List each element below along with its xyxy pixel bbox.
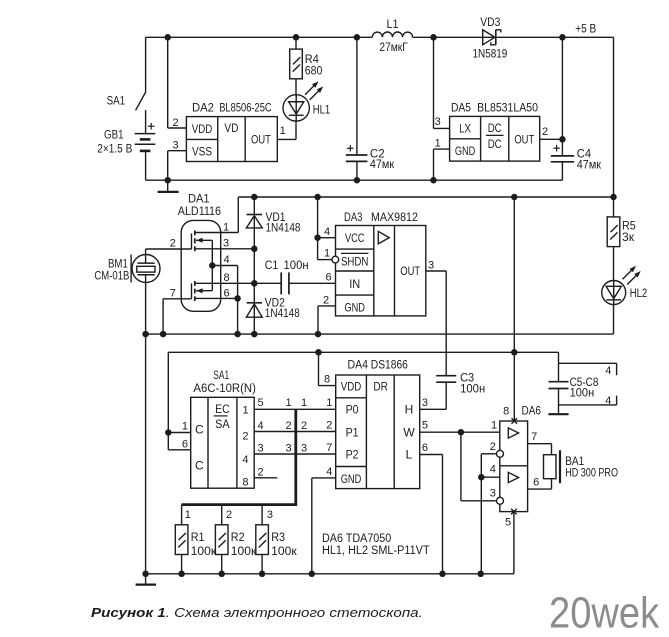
svg-text:2: 2 xyxy=(301,420,307,432)
svg-text:SA: SA xyxy=(215,417,230,431)
svg-text:1: 1 xyxy=(182,421,188,433)
pin 2 label SA1 xyxy=(258,466,264,478)
pin 3 label DA2 xyxy=(173,139,179,151)
svg-text:5: 5 xyxy=(258,397,264,409)
svg-text:100к: 100к xyxy=(271,546,298,558)
pin 6 label DA1 xyxy=(223,287,229,299)
svg-text:LX: LX xyxy=(459,122,471,136)
junction bottom rail / DA4 GND xyxy=(309,571,316,578)
ground symbol upper xyxy=(158,180,179,192)
pin 1 inversion circle DA3 xyxy=(332,256,339,263)
svg-text:W: W xyxy=(403,425,415,439)
junction bottom rail / R2 xyxy=(218,571,225,578)
wire +5V sub rail xyxy=(238,196,613,198)
svg-text:EC: EC xyxy=(215,402,230,416)
svg-text:GND: GND xyxy=(455,144,476,158)
wire DA3 GND branch xyxy=(318,306,336,334)
svg-text:2: 2 xyxy=(226,509,232,521)
pin 5 cross DA6 xyxy=(511,509,517,515)
wire DA6 pin6 to BA1 xyxy=(528,479,552,489)
svg-text:OUT: OUT xyxy=(251,133,271,147)
capacitor C4 xyxy=(551,37,602,180)
wire DA5 OUT to C4 node xyxy=(540,138,563,140)
junction C4 node xyxy=(559,136,566,143)
capacitor C3 xyxy=(420,373,486,410)
junction sub rail / DA3 VCC xyxy=(314,194,321,201)
junction pin3 / diode chain xyxy=(251,246,257,253)
pin 1 label DA6 xyxy=(491,420,497,432)
svg-text:4: 4 xyxy=(258,420,264,432)
pin 7 label DA6 xyxy=(531,431,537,443)
wire bus drop 2 xyxy=(221,505,223,525)
junction bottom rail / DA4 L xyxy=(439,571,446,578)
svg-text:HL1, HL2 SML-P11VT: HL1, HL2 SML-P11VT xyxy=(322,545,430,557)
svg-text:2: 2 xyxy=(173,117,179,129)
resistor R1 xyxy=(175,525,217,574)
pin 5 label DA4 xyxy=(422,419,428,431)
svg-text:100н: 100н xyxy=(570,387,595,399)
svg-text:47мк: 47мк xyxy=(370,159,395,171)
svg-text:1: 1 xyxy=(435,137,441,149)
svg-text:5: 5 xyxy=(505,516,511,528)
svg-text:C: C xyxy=(195,458,204,472)
svg-text:7: 7 xyxy=(170,287,176,299)
pin 4 label DA4 xyxy=(326,466,332,478)
node drop2 label xyxy=(226,509,232,521)
wire DA5 LX branch xyxy=(434,37,450,128)
wire DA5 GND branch xyxy=(434,149,450,180)
svg-text:3: 3 xyxy=(267,509,273,521)
junction top rail / C2 branch xyxy=(354,34,361,41)
svg-text:VCC: VCC xyxy=(345,231,365,245)
diode VD1 xyxy=(246,212,300,234)
wire BM1 bottom to ground rail xyxy=(145,275,147,334)
svg-text:L1: L1 xyxy=(387,19,399,31)
svg-text:1N4148: 1N4148 xyxy=(266,222,301,234)
svg-text:L: L xyxy=(406,447,413,461)
node HL type label xyxy=(322,545,430,557)
wire DA3 VCC-SHDN branch xyxy=(318,197,336,260)
pin 5 label SA1 xyxy=(258,397,264,409)
svg-text:DA5: DA5 xyxy=(451,102,471,114)
svg-text:3: 3 xyxy=(173,139,179,151)
svg-text:DC: DC xyxy=(488,137,502,151)
pin 2 label DA5 xyxy=(542,126,548,138)
node wire3 label right xyxy=(301,442,307,454)
resistor R2 xyxy=(215,525,257,574)
svg-text:+5 В: +5 В xyxy=(575,23,596,35)
svg-text:BL8531LA50: BL8531LA50 xyxy=(477,102,538,114)
wire BM1 top to gate xyxy=(145,249,147,263)
svg-text:1: 1 xyxy=(223,222,229,234)
svg-text:SA1: SA1 xyxy=(107,95,126,107)
wire +5V top rail right segment xyxy=(413,36,614,38)
node wire1 label right xyxy=(301,397,307,409)
svg-text:DA2: DA2 xyxy=(192,103,214,115)
transistor Q1 upper half xyxy=(192,230,213,265)
pin 8 cross DA6 xyxy=(512,418,518,424)
diode VD3 xyxy=(473,17,508,61)
junction DA3 VCC xyxy=(314,234,321,241)
svg-text:6: 6 xyxy=(223,287,229,299)
pin 1 label DA2 xyxy=(280,125,286,137)
wire DA1 pin 2 gate xyxy=(146,248,192,250)
svg-text:DA6 TDA7050: DA6 TDA7050 xyxy=(322,533,391,545)
svg-text:1N5819: 1N5819 xyxy=(473,49,508,61)
svg-text:4: 4 xyxy=(242,454,248,466)
wire right +5V vertical xyxy=(613,37,615,197)
node drop1 label xyxy=(185,509,191,521)
junction W line xyxy=(458,429,465,436)
svg-text:ALD1116: ALD1116 xyxy=(178,206,221,218)
pin 5 label DA6 xyxy=(505,516,511,528)
svg-text:4: 4 xyxy=(605,365,611,377)
svg-text:DA4: DA4 xyxy=(348,359,369,371)
wire row3 SA1 to DA4 P2 xyxy=(254,453,336,455)
junction rail1 / pin7 xyxy=(160,331,167,338)
pin 2 label DA1 xyxy=(170,238,176,250)
svg-text:2: 2 xyxy=(170,238,176,250)
node watermark xyxy=(549,589,659,637)
op-amp U DA2 BL8506-25C box xyxy=(186,103,277,162)
wire DA6 pin7 to BA1 xyxy=(528,444,552,455)
pin 4 label DA3 xyxy=(324,226,330,238)
svg-text:100к: 100к xyxy=(231,546,258,558)
pin 2 label DA4 xyxy=(326,420,332,432)
svg-text:2: 2 xyxy=(242,430,248,442)
svg-text:47мк: 47мк xyxy=(577,160,602,172)
svg-text:SHDN: SHDN xyxy=(341,254,369,268)
pin 2 inversion circle DA6 xyxy=(497,450,504,457)
capacitor C1 xyxy=(265,260,336,295)
svg-text:3к: 3к xyxy=(622,232,635,244)
pin 2 label DA2 xyxy=(173,117,179,129)
svg-text:1: 1 xyxy=(280,125,286,137)
pin 3 inversion circle DA6 xyxy=(497,497,504,504)
pin 1 label DA3 xyxy=(324,248,330,260)
microphone BM1 xyxy=(94,255,160,283)
node caption xyxy=(91,606,423,620)
wire GB1 to ground rail xyxy=(145,151,147,180)
pin 6 label DA6 xyxy=(533,476,539,488)
pin 1 label DA5 xyxy=(435,137,441,149)
svg-text:1: 1 xyxy=(326,397,332,409)
svg-text:2: 2 xyxy=(326,420,332,432)
svg-text:BM1: BM1 xyxy=(108,258,128,270)
svg-text:GB1: GB1 xyxy=(104,129,124,141)
wire DA1 pin 4 substrate xyxy=(212,266,237,335)
svg-text:4: 4 xyxy=(324,226,330,238)
svg-text:HD 300 PRO: HD 300 PRO xyxy=(565,467,618,479)
svg-text:DA1: DA1 xyxy=(188,193,210,205)
wire DA1 pin 1 to sub rail xyxy=(195,197,239,233)
svg-text:P1: P1 xyxy=(346,425,359,439)
svg-text:2: 2 xyxy=(286,420,292,432)
junction top rail / R4 branch xyxy=(293,34,300,41)
wire DA4 L to ground xyxy=(420,455,443,574)
svg-text:3: 3 xyxy=(490,488,496,500)
junction top rail / C4 branch xyxy=(559,34,566,41)
svg-text:4: 4 xyxy=(223,254,229,266)
svg-text:100н: 100н xyxy=(460,384,485,396)
svg-text:A6C-10R(N): A6C-10R(N) xyxy=(193,383,256,395)
wire VDD rail2 xyxy=(168,351,558,353)
svg-text:7: 7 xyxy=(531,431,537,443)
svg-text:1: 1 xyxy=(286,397,292,409)
svg-text:VDD: VDD xyxy=(192,122,213,136)
headphones BA1 xyxy=(544,450,619,483)
svg-text:H: H xyxy=(405,403,414,417)
wire DA4 VDD branch xyxy=(319,352,336,385)
junction sub rail / VD1 xyxy=(251,194,257,201)
wire DA4 GND branch xyxy=(312,478,336,574)
svg-text:2: 2 xyxy=(258,466,264,478)
pin 3 label DA6 xyxy=(490,488,496,500)
junction sub rail / DA6 supply xyxy=(511,194,518,201)
svg-text:3: 3 xyxy=(286,442,292,454)
node DA6 type label xyxy=(322,533,391,545)
pin 3 label DA1 xyxy=(223,238,229,250)
wire DA2 OUT to HL1 xyxy=(277,121,296,139)
pin 1 label SA1 left xyxy=(182,421,188,433)
svg-text:1: 1 xyxy=(324,248,330,260)
svg-text:3: 3 xyxy=(223,238,229,250)
svg-text:C1: C1 xyxy=(265,260,279,272)
junction rail1 / BM1 xyxy=(142,331,149,338)
svg-text:1: 1 xyxy=(491,420,497,432)
node wire1 label left xyxy=(286,397,292,409)
svg-text:OUT: OUT xyxy=(400,264,420,278)
junction rail1 / DA3 GND xyxy=(315,331,322,338)
svg-text:20wek: 20wek xyxy=(549,589,659,637)
capacitor C2 xyxy=(346,37,395,180)
pin 3 label DA4 xyxy=(422,397,428,409)
svg-text:R1: R1 xyxy=(191,532,205,544)
wire bus drop 1 xyxy=(181,505,183,525)
op-amp U DA4 DS1866 box xyxy=(336,359,420,488)
pin 4 label DA1 xyxy=(223,254,229,266)
pin 3 label SA1 xyxy=(258,442,264,454)
svg-text:P0: P0 xyxy=(346,403,359,417)
svg-text:Рисунок 1. Схема электронного: Рисунок 1. Схема электронного стетоскопа… xyxy=(91,606,423,620)
wire DA4 W to DA6 pin1 xyxy=(420,431,500,433)
svg-text:SA1: SA1 xyxy=(213,370,229,382)
node DA6 label xyxy=(522,405,542,417)
svg-text:5: 5 xyxy=(422,419,428,431)
svg-text:8: 8 xyxy=(242,477,248,489)
svg-text:6: 6 xyxy=(533,476,539,488)
pin 8 label DA6 xyxy=(503,406,509,418)
junction ground rail / C2 xyxy=(354,177,361,184)
pin 4 label DA6 xyxy=(490,464,496,476)
junction pin8 / diode chain xyxy=(251,280,257,287)
wire DA6 pin2 to ground xyxy=(481,454,496,574)
svg-text:HL1: HL1 xyxy=(313,105,331,117)
svg-text:DS1866: DS1866 xyxy=(371,359,408,371)
svg-text:DA6: DA6 xyxy=(522,405,542,417)
pin 2 label DA3 xyxy=(323,294,329,306)
LED HL2 xyxy=(602,266,648,305)
wire middle ground rail xyxy=(146,333,614,335)
svg-text:VD: VD xyxy=(224,121,238,135)
svg-text:BL8506-25C: BL8506-25C xyxy=(219,103,272,115)
svg-text:P2: P2 xyxy=(346,447,359,461)
pin 8 label DA1 xyxy=(223,272,229,284)
svg-text:OUT: OUT xyxy=(514,133,534,147)
svg-text:3: 3 xyxy=(435,116,441,128)
wire W to DA6 pin3 xyxy=(461,432,497,501)
junction ground rail / DA2 VSS xyxy=(164,177,171,184)
wire DA2 VSS branch xyxy=(168,151,187,181)
svg-text:680: 680 xyxy=(305,66,323,78)
wire DA1 pin 3 source xyxy=(195,248,255,250)
svg-text:2: 2 xyxy=(323,294,329,306)
wire SA1 pin8 stub xyxy=(254,477,277,479)
wire rail1 to bottom ground xyxy=(145,334,147,574)
svg-text:8: 8 xyxy=(324,374,330,386)
pin 1 label DA1 xyxy=(223,222,229,234)
pin 6 label DA4 xyxy=(422,442,428,454)
junction sub rail / right vertical xyxy=(610,194,617,201)
resistor R4 xyxy=(290,37,323,94)
svg-text:1N4148: 1N4148 xyxy=(265,308,300,320)
junction pin6 / pin4 vertical xyxy=(234,295,241,302)
svg-text:4: 4 xyxy=(326,466,332,478)
svg-text:C: C xyxy=(195,423,204,437)
junction SA1 common xyxy=(165,429,172,436)
wire DA6 pin4 stub xyxy=(481,476,500,478)
junction pin4 node xyxy=(209,262,216,269)
svg-text:4: 4 xyxy=(605,395,611,407)
svg-text:1: 1 xyxy=(301,397,307,409)
pin 4 label SA1 xyxy=(258,420,264,432)
svg-text:BA1: BA1 xyxy=(565,456,584,468)
svg-text:IN: IN xyxy=(349,277,360,291)
svg-text:100н: 100н xyxy=(284,260,309,272)
svg-text:DA3: DA3 xyxy=(344,212,362,224)
pin 7 label DA1 xyxy=(170,287,176,299)
wire bottom ground rail xyxy=(146,573,514,575)
svg-text:6: 6 xyxy=(422,442,428,454)
inductor L1 xyxy=(372,19,412,54)
node +5 В label xyxy=(575,23,596,35)
wire HL2 to rail1 xyxy=(613,305,615,335)
svg-text:HL2: HL2 xyxy=(630,288,648,300)
battery GB1 xyxy=(97,123,155,156)
svg-text:6: 6 xyxy=(325,271,331,283)
node drop3 label xyxy=(267,509,273,521)
switch SA1 DIP box xyxy=(191,370,256,489)
svg-text:3: 3 xyxy=(428,259,434,271)
LED HL1 xyxy=(283,81,330,121)
node wire2 label right xyxy=(301,420,307,432)
capacitor C5-C8 xyxy=(548,352,616,414)
wire row1 SA1 to DA4 P0 xyxy=(254,408,336,410)
transistor Q2 lower half xyxy=(192,266,213,302)
junction top rail / DA2 branch xyxy=(164,34,171,41)
pin 7 label DA4 xyxy=(326,442,332,454)
svg-text:GND: GND xyxy=(341,472,362,486)
wire DA1 pin 7 gate xyxy=(163,299,191,334)
pin 1 label DA4 xyxy=(326,397,332,409)
wire DA1 pin 8 drain to C1 xyxy=(195,282,281,284)
pin 6 label DA3 xyxy=(325,271,331,283)
junction ground rail / DA5 GND xyxy=(430,177,437,184)
resistor R5 xyxy=(607,197,636,281)
op-amp U DA6 box xyxy=(500,421,528,512)
wire DA1 pin 6 source xyxy=(195,297,238,299)
transistor array DA1 ALD1116 outline xyxy=(178,193,221,311)
diode VD2 xyxy=(246,298,299,320)
op-amp U DA3 MAX9812 box xyxy=(336,212,426,316)
wire SA1 common branch xyxy=(168,352,190,450)
svg-text:8: 8 xyxy=(223,272,229,284)
wire DA6 pin5 to ground rail xyxy=(513,512,515,574)
wire bus drop 3 xyxy=(261,505,263,525)
wire group bus xyxy=(182,409,296,504)
svg-text:7: 7 xyxy=(326,442,332,454)
junction rail2 / DA6 supply xyxy=(511,349,518,356)
svg-text:4: 4 xyxy=(490,464,496,476)
svg-text:DC: DC xyxy=(488,121,502,135)
wire row2 SA1 to DA4 P1 xyxy=(254,431,336,433)
svg-text:DR: DR xyxy=(373,380,388,394)
pin 2 label DA6 xyxy=(490,441,496,453)
wire ground return rail xyxy=(146,179,563,181)
svg-text:VSS: VSS xyxy=(192,145,212,159)
pin 6 label SA1 left xyxy=(182,438,188,450)
junction bottom rail / R3 xyxy=(259,571,266,578)
svg-text:3: 3 xyxy=(422,397,428,409)
svg-text:R3: R3 xyxy=(271,532,285,544)
svg-text:2: 2 xyxy=(490,441,496,453)
svg-text:GND: GND xyxy=(344,301,365,315)
wire diode chain vertical xyxy=(253,197,255,334)
svg-text:8: 8 xyxy=(503,406,509,418)
pin 8 label DA4 xyxy=(324,374,330,386)
svg-text:R2: R2 xyxy=(231,532,245,544)
junction bottom rail left xyxy=(142,571,149,578)
op-amp U DA5 BL8531LA50 box xyxy=(450,102,540,161)
svg-text:6: 6 xyxy=(182,438,188,450)
svg-text:CM-01B: CM-01B xyxy=(94,270,129,282)
junction rail1 / VD2 xyxy=(251,331,257,338)
wire +5V top rail left segment xyxy=(146,36,373,38)
resistor R3 xyxy=(256,525,298,574)
svg-text:R4: R4 xyxy=(305,54,320,66)
svg-text:1: 1 xyxy=(243,405,249,417)
svg-text:100к: 100к xyxy=(191,546,218,558)
svg-text:2: 2 xyxy=(542,126,548,138)
svg-text:R5: R5 xyxy=(622,221,636,233)
junction bottom rail / DA6 pin2 xyxy=(477,571,484,578)
junction top rail / DA5 LX branch xyxy=(430,34,437,41)
wire DA2 VDD branch xyxy=(168,37,187,128)
node wire2 label left xyxy=(286,420,292,432)
switch SA1 xyxy=(107,37,146,133)
svg-text:VD3: VD3 xyxy=(480,17,500,29)
junction rail1 / pin4 vertical xyxy=(234,331,241,338)
svg-text:3: 3 xyxy=(258,442,264,454)
junction pin4 DA6 xyxy=(478,474,485,481)
wire DA3 OUT to C3 xyxy=(426,271,446,376)
ground symbol lower xyxy=(136,574,157,585)
svg-text:VDD: VDD xyxy=(341,380,362,394)
wire DA6 supply vertical xyxy=(513,197,515,421)
svg-text:1: 1 xyxy=(185,509,191,521)
svg-text:3: 3 xyxy=(301,442,307,454)
svg-text:2×1.5 В: 2×1.5 В xyxy=(97,144,132,156)
